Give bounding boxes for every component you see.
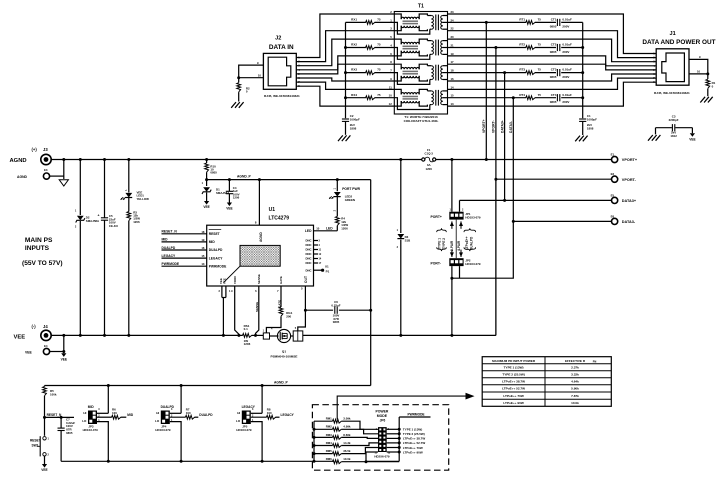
svg-text:75: 75 — [538, 18, 542, 22]
svg-text:MID: MID — [162, 238, 169, 242]
svg-text:TYPE 2: TYPE 2 — [442, 238, 446, 249]
svg-text:T1: T1 — [418, 4, 424, 10]
junction tap 2 — [494, 46, 497, 49]
wire E6 line — [513, 220, 611, 222]
junction RX bus row 5 — [344, 46, 347, 49]
capacitor C5 22uF — [98, 160, 118, 336]
svg-text:J3: J3 — [43, 147, 48, 152]
svg-text:Q1: Q1 — [282, 350, 286, 354]
wire VPORT- down — [495, 179, 497, 335]
jumper JP2 HD1X3-079 — [449, 258, 481, 266]
svg-text:0805: 0805 — [66, 431, 73, 435]
svg-text:LED: LED — [305, 229, 312, 233]
svg-text:0.01uF: 0.01uF — [562, 93, 572, 97]
wire rail to E1 — [486, 159, 611, 161]
svg-text:200V: 200V — [562, 75, 569, 79]
wire bottom VEE rail — [61, 460, 334, 462]
arrow JP2 select left — [450, 250, 454, 257]
capacitor C2 1000pF — [342, 114, 360, 135]
wire J2 pin9 — [239, 61, 264, 78]
svg-text:MAIN PS: MAIN PS — [25, 237, 53, 244]
svg-text:HD2X6-079: HD2X6-079 — [374, 455, 389, 459]
svg-text:PWRMODE: PWRMODE — [209, 264, 227, 268]
svg-text:15: 15 — [201, 254, 205, 258]
svg-text:LTPoE++ 52.7W: LTPoE++ 52.7W — [403, 441, 425, 445]
svg-text:DATA3+: DATA3+ — [500, 120, 504, 133]
junction D3 top — [399, 158, 402, 161]
turret E1 VPORT+ — [611, 152, 638, 162]
junction tap 1 — [485, 21, 488, 24]
svg-text:10: 10 — [316, 227, 320, 231]
svg-text:LO: LO — [236, 419, 241, 423]
wire J2 pin4 to T1 row 6 — [296, 56, 394, 70]
resistor RM1 3.09k — [314, 417, 378, 430]
svg-text:2.37k: 2.37k — [571, 366, 579, 370]
svg-text:CT1: CT1 — [551, 18, 557, 22]
transformer T1 winding unit 3 — [394, 64, 447, 84]
svg-text:MID: MID — [88, 405, 95, 409]
capacitor C1 1000pF — [579, 114, 597, 135]
svg-text:10: 10 — [697, 70, 701, 74]
ground below R2 — [231, 102, 243, 108]
svg-text:RX2: RX2 — [351, 43, 357, 47]
wire J2 pin6 to T1 row 9 — [296, 78, 394, 81]
svg-text:J4: J4 — [43, 324, 48, 329]
svg-text:3.09k: 3.09k — [343, 417, 351, 421]
svg-text:0.22uF: 0.22uF — [331, 304, 340, 308]
U1 DNC pin to testpoint X1 P1 — [305, 264, 329, 273]
svg-text:LED: LED — [326, 227, 333, 231]
svg-text:RT4: RT4 — [519, 93, 525, 97]
svg-text:10: 10 — [258, 74, 262, 78]
svg-text:SMAJ58A: SMAJ58A — [86, 219, 100, 223]
svg-text:HI: HI — [83, 411, 86, 415]
resistor RT4 75 — [519, 93, 556, 100]
svg-text:RM6: RM6 — [326, 457, 332, 461]
svg-text:SW1: SW1 — [32, 444, 39, 448]
junction RM bus rail — [313, 460, 316, 463]
resistor RX3 75 — [346, 68, 395, 75]
table MAXIMUM PD INPUT POWER / EFFECTIVE R_PM — [482, 357, 611, 407]
svg-text:3.32k: 3.32k — [571, 373, 579, 377]
capacitor C7 0.22uF — [58, 417, 76, 461]
arrow JP1 select left — [450, 221, 454, 228]
svg-text:0.01uF: 0.01uF — [562, 68, 572, 72]
junction C4 top — [228, 178, 231, 181]
svg-text:7.87k: 7.87k — [571, 394, 579, 398]
svg-text:HI: HI — [237, 411, 240, 415]
svg-text:CE-KX: CE-KX — [109, 224, 118, 228]
junction C6 AGND_P — [369, 309, 372, 312]
svg-text:14.3k: 14.3k — [343, 441, 351, 445]
VEE below D1 — [203, 201, 209, 209]
resistor RT2 75 — [519, 43, 556, 50]
svg-text:1206: 1206 — [244, 342, 251, 346]
svg-text:E5: E5 — [611, 193, 615, 197]
svg-text:8.66k: 8.66k — [343, 433, 351, 437]
svg-text:DUALPD: DUALPD — [469, 236, 473, 250]
svg-text:0.1: 0.1 — [244, 327, 249, 331]
resistor RT1 75 — [519, 18, 556, 25]
svg-text:CT4: CT4 — [551, 93, 557, 97]
capacitor CT2 0.01uF — [550, 43, 583, 54]
resistor RX2 75 — [346, 43, 395, 50]
svg-text:PORT+: PORT+ — [431, 215, 442, 219]
svg-text:0.01uF: 0.01uF — [562, 43, 572, 47]
junction CT bus row 15 — [581, 96, 584, 99]
resistor RX1 75 — [346, 18, 395, 25]
transformer T1 winding unit 4 — [394, 89, 447, 109]
junction LED1 bottom — [127, 334, 130, 337]
VEE below SW1 — [41, 464, 47, 472]
label LTPoE++ / DUALPD option — [464, 228, 476, 251]
wire T1 row 13 to J1 pin8 — [448, 82, 657, 106]
svg-text:VEE: VEE — [223, 278, 227, 284]
junction RX bus row 11 — [344, 96, 347, 99]
svg-text:C1Q 3: C1Q 3 — [425, 151, 434, 155]
svg-text:J2: J2 — [275, 35, 281, 41]
wire J2 pin3 to T1 row 4 — [296, 39, 394, 66]
ground below R1 — [700, 97, 712, 103]
svg-text:RJ45, WE-615008143621: RJ45, WE-615008143621 — [264, 94, 300, 98]
svg-text:VEE: VEE — [226, 207, 232, 211]
wire J1 pin9 — [689, 55, 708, 74]
transformer T1 winding unit 1 — [394, 14, 447, 34]
svg-text:PSMN040-100MSE: PSMN040-100MSE — [271, 355, 298, 359]
svg-text:VPORT-: VPORT- — [622, 178, 637, 182]
T1 part number note — [404, 115, 439, 123]
diode D2 SMAJ58A (TVS) — [75, 160, 100, 336]
svg-text:RX4: RX4 — [351, 93, 357, 97]
svg-text:0805: 0805 — [550, 75, 557, 79]
svg-text:VEE: VEE — [689, 137, 695, 141]
svg-text:RM2: RM2 — [326, 425, 332, 429]
svg-text:0805: 0805 — [210, 171, 217, 175]
svg-text:200V: 200V — [562, 100, 569, 104]
wire CT common bus — [582, 22, 584, 118]
turret E3 AGND — [17, 168, 50, 179]
svg-text:AGND_P: AGND_P — [274, 380, 289, 384]
svg-text:MID: MID — [209, 240, 216, 244]
svg-text:1000pF: 1000pF — [350, 118, 360, 122]
turret E5 DATA3+ — [611, 193, 637, 203]
wire T1 row 17 to J1 pin5 — [448, 64, 657, 70]
turret E2 VPORT- — [611, 172, 637, 182]
junction J1 pins 9-10 — [706, 72, 709, 75]
wire JP6 right bus — [366, 417, 401, 461]
svg-text:HD1X3-079: HD1X3-079 — [236, 428, 251, 432]
svg-text:1206: 1206 — [425, 167, 432, 171]
wire J2 pin2 to T1 row 3 — [296, 31, 394, 62]
diode D3 S1B — [397, 160, 411, 336]
svg-text:J1: J1 — [669, 31, 675, 37]
svg-text:TYPE 1 (13W): TYPE 1 (13W) — [504, 366, 524, 370]
junction AGND_P takeoff — [205, 178, 208, 181]
T1 left pin numbers — [389, 10, 393, 106]
svg-text:1206: 1206 — [341, 227, 348, 231]
U1 pin 8 AGND — [255, 180, 263, 242]
connector J2 DATA IN (RJ45) — [263, 35, 300, 98]
svg-text:36.5k: 36.5k — [343, 449, 351, 453]
svg-text:VEE: VEE — [203, 205, 209, 209]
wire RX common bus — [345, 22, 347, 118]
label PORT- — [431, 261, 441, 265]
T1 right pin numbers — [451, 10, 455, 106]
svg-text:4-PAIR: 4-PAIR — [457, 240, 461, 251]
wire PWRMODE stub — [399, 413, 430, 417]
svg-text:2-PAIR: 2-PAIR — [450, 240, 454, 251]
svg-text:VDDK: VDDK — [233, 275, 237, 284]
junction E3 rail — [62, 158, 65, 161]
U1 pin 16 DUALPD with net stub — [162, 246, 224, 252]
svg-text:10.0k: 10.0k — [343, 457, 351, 461]
switch SW1 RESET — [30, 417, 50, 464]
resistor RM5 36.5k — [314, 448, 378, 456]
svg-text:TYPE 1 (13W): TYPE 1 (13W) — [403, 428, 422, 432]
junction R10 top — [205, 158, 208, 161]
wire bottom AGND_P rail — [45, 380, 371, 385]
wire JP1-JP2 center link — [455, 220, 457, 259]
svg-text:JP6: JP6 — [380, 419, 386, 423]
wire T1 row 22 to J1 pin2 — [448, 31, 657, 58]
wire VPORT- vertical — [492, 48, 496, 180]
svg-text:0.01uF: 0.01uF — [562, 18, 572, 22]
junction CT bus row 18 — [581, 71, 584, 74]
svg-text:RT3: RT3 — [519, 68, 525, 72]
J1 pin numbers — [653, 53, 655, 85]
resistor R5 100k — [43, 386, 57, 418]
junction RS1 right — [254, 334, 257, 337]
resistor RM6 10.0k — [326, 452, 400, 464]
svg-text:PWRMODE: PWRMODE — [408, 413, 425, 417]
svg-text:75: 75 — [538, 68, 542, 72]
svg-text:1812: 1812 — [670, 134, 677, 138]
U1 pin 10 LED wire — [305, 227, 337, 233]
capacitor C4 1uF — [226, 180, 240, 203]
banana jack J3 AGND (+) — [10, 147, 52, 165]
svg-text:LEGACY: LEGACY — [162, 254, 177, 258]
svg-text:LEGACY: LEGACY — [242, 405, 256, 409]
svg-text:0805: 0805 — [550, 25, 557, 29]
wire T1 row 24 tap — [448, 21, 527, 23]
wire AGND top rail — [51, 159, 423, 161]
svg-text:LTPoE++ 90W: LTPoE++ 90W — [503, 401, 523, 405]
junction C7 top — [60, 416, 63, 419]
svg-text:YELLOW: YELLOW — [137, 197, 150, 201]
svg-text:DATA3+: DATA3+ — [622, 199, 637, 203]
diode D1 SMAJ58A (TVS) — [202, 180, 231, 201]
svg-text:INPUTS: INPUTS — [25, 245, 50, 252]
resistor RG1 200 — [266, 307, 292, 333]
junction RS1 left — [237, 334, 240, 337]
svg-text:DUALPD: DUALPD — [199, 413, 213, 417]
svg-text:S1B: S1B — [405, 238, 411, 242]
svg-text:0805: 0805 — [550, 50, 557, 54]
svg-text:MAXIMUM PD INPUT POWER: MAXIMUM PD INPUT POWER — [492, 359, 536, 363]
svg-text:DUALPD: DUALPD — [162, 246, 176, 250]
svg-text:LO: LO — [155, 419, 160, 423]
junction VPORT+ rail — [485, 158, 488, 161]
VEE below C3 right — [689, 133, 695, 141]
svg-text:100k: 100k — [50, 393, 57, 397]
svg-text:RJ45, WE-615008143621: RJ45, WE-615008143621 — [654, 91, 690, 95]
transistor Q1 PSMN040-100MSE — [263, 327, 303, 359]
capacitor C3 2200pF — [656, 115, 693, 138]
svg-text:DUALPD: DUALPD — [161, 405, 175, 409]
op-amp U1 LTC4279 body — [207, 207, 314, 286]
wire JP2 pin1 down — [451, 266, 453, 278]
svg-text:13: 13 — [201, 262, 205, 266]
svg-text:LTPoE++ 90W: LTPoE++ 90W — [403, 450, 423, 454]
wire T1 row 19 to J1 pin4 — [448, 56, 657, 66]
junction OUT node — [304, 309, 307, 312]
svg-text:E2: E2 — [611, 172, 615, 176]
svg-text:1000pF: 1000pF — [587, 118, 597, 122]
svg-text:19: 19 — [201, 238, 205, 242]
wire J2 pin8 to T1 row 12 — [296, 86, 394, 106]
J2 pin numbers — [298, 57, 300, 89]
svg-text:E6: E6 — [611, 214, 615, 218]
svg-text:RESET_N: RESET_N — [162, 230, 178, 234]
resistor RM2 4.99k — [314, 425, 378, 434]
svg-text:RX1: RX1 — [351, 18, 357, 22]
arrow JP1 select right — [459, 221, 463, 228]
wire J2 pin7 to T1 row 10 — [296, 82, 394, 89]
resistor RX4 75 — [346, 93, 395, 100]
jumper JP6 HD2X6-079 POWER MODE — [374, 409, 391, 458]
LED LED1 YELLOW — [121, 160, 150, 202]
junction VEE pin rail — [222, 334, 225, 337]
U1 SENSE pin 6 — [255, 274, 261, 335]
junction E4 rail — [62, 334, 65, 337]
svg-text:AGND: AGND — [10, 158, 27, 164]
banana jack J4 VEE (-) — [14, 324, 52, 341]
junction VPORT- E2 — [494, 178, 497, 181]
svg-text:75: 75 — [377, 18, 381, 22]
arrow to effective R_PM table — [337, 393, 474, 420]
svg-text:PORT-: PORT- — [431, 261, 441, 265]
svg-text:RM3: RM3 — [326, 433, 332, 437]
resistor RM3 8.66k — [314, 433, 378, 440]
svg-text:HD1X3-079: HD1X3-079 — [465, 215, 480, 219]
svg-text:1206: 1206 — [233, 196, 240, 200]
U1 pin 15 LEGACY with net stub — [162, 254, 224, 260]
svg-text:VPORT-: VPORT- — [492, 120, 496, 133]
svg-text:DNC: DNC — [305, 243, 311, 247]
resistor R2 0 — [237, 78, 250, 102]
svg-text:0805: 0805 — [333, 320, 340, 324]
ground below C1 — [575, 136, 587, 142]
turret E6 DATA3- — [611, 214, 636, 224]
svg-text:RT2: RT2 — [519, 43, 525, 47]
svg-text:PORT PWR: PORT PWR — [342, 187, 360, 191]
svg-text:GREEN: GREEN — [345, 198, 355, 202]
svg-text:+: + — [98, 214, 100, 218]
fuse F1 3A — [422, 148, 436, 171]
junction DATA3- E6 — [512, 220, 515, 223]
svg-text:RM4: RM4 — [326, 441, 332, 445]
svg-text:PWRMODE: PWRMODE — [162, 262, 180, 266]
junction CT bus row 21 — [581, 46, 584, 49]
labels JP6 position names — [403, 428, 425, 455]
wire T1 row 15 tap — [448, 97, 527, 99]
svg-text:4.99k: 4.99k — [343, 425, 351, 429]
junction J2 pins 9-10 — [237, 76, 240, 79]
svg-text:5.90k: 5.90k — [571, 387, 579, 391]
svg-text:10.0k: 10.0k — [571, 401, 579, 405]
svg-text:RM5: RM5 — [326, 449, 332, 453]
svg-text:DNC: DNC — [305, 257, 311, 261]
AGND earth ground symbol — [59, 180, 68, 186]
svg-text:E4: E4 — [44, 344, 48, 348]
svg-text:POWER: POWER — [375, 409, 388, 413]
wire E2 line — [496, 178, 612, 180]
svg-text:SENSE: SENSE — [255, 302, 259, 312]
svg-text:RT1: RT1 — [519, 18, 525, 22]
junction RX bus row 8 — [344, 71, 347, 74]
junction LED2 rail — [336, 178, 339, 181]
svg-text:COILCRAFT ETH1-460L: COILCRAFT ETH1-460L — [404, 119, 439, 123]
wire E4 to VEE — [50, 335, 64, 353]
svg-text:VEE: VEE — [61, 358, 67, 362]
U1 DNC pins — [305, 239, 321, 266]
svg-text:11: 11 — [389, 85, 392, 89]
resistor R10 10 — [205, 160, 218, 180]
svg-text:U1: U1 — [269, 207, 276, 213]
capacitor C6 0.22uF — [305, 300, 370, 324]
U1 VEE pins 1 2 — [219, 278, 231, 335]
U1 pin 19 MID with net stub — [162, 238, 216, 244]
svg-text:DATA3-: DATA3- — [622, 220, 636, 224]
connector J1 DATA AND POWER OUT (RJ45) — [642, 31, 715, 95]
svg-text:(-): (-) — [32, 324, 37, 329]
svg-text:75: 75 — [377, 93, 381, 97]
junction E4 wire — [62, 350, 65, 353]
U1 VDDK pin 9 — [231, 275, 239, 336]
wire VEE bottom rail — [51, 334, 239, 336]
ground below C3 left — [648, 135, 660, 141]
junction RESET_N node — [43, 416, 46, 419]
wire JP2 pin3 down — [459, 266, 461, 278]
svg-text:LEGACY: LEGACY — [281, 413, 295, 417]
svg-text:MID: MID — [127, 413, 134, 417]
svg-text:VEE: VEE — [25, 351, 33, 355]
svg-text:AGND_P: AGND_P — [237, 175, 252, 179]
junction C5 bottom — [103, 334, 106, 337]
svg-text:SENSE: SENSE — [257, 274, 261, 284]
junction JP2 bottom node — [450, 277, 453, 280]
wire T1 row 20 to J1 pin3 — [448, 39, 657, 62]
svg-text:100: 100 — [267, 411, 272, 415]
resistor R1 0 — [706, 74, 716, 96]
svg-text:GATE: GATE — [279, 276, 283, 284]
label 2-PAIR option — [450, 240, 454, 251]
label PORT+ — [431, 215, 442, 219]
transformer T1 winding unit 2 — [394, 39, 447, 59]
label TYPE 1 / TYPE 2 option — [437, 228, 447, 251]
svg-text:LTC4279: LTC4279 — [269, 215, 290, 221]
svg-text:HD1X3-079: HD1X3-079 — [465, 262, 480, 266]
jumper JP3 MID select — [82, 384, 134, 463]
wire RM left bus — [313, 421, 316, 461]
svg-text:E3: E3 — [44, 168, 48, 172]
svg-text:200: 200 — [286, 314, 291, 318]
wire RESET_N stub — [45, 413, 75, 417]
svg-text:DUALPD: DUALPD — [209, 248, 223, 252]
junction D2 top — [79, 158, 82, 161]
wire rail Q1 to right — [303, 334, 401, 336]
junction D2 bottom — [79, 334, 82, 337]
